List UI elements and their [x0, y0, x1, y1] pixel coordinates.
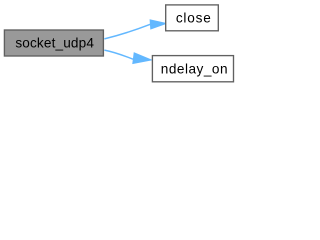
svg-text:close: close: [176, 10, 212, 25]
edge socket_udp4 to ndelay_on (wire): [104, 50, 133, 59]
node close (white box): [166, 5, 219, 31]
node socket_udp4 (current function, grey box): [4, 30, 103, 56]
arrowhead into ndelay_on: [133, 54, 149, 63]
svg-text:socket_udp4: socket_udp4: [15, 36, 94, 51]
node ndelay_on (white box): [152, 56, 233, 82]
arrowhead into close: [150, 20, 165, 28]
edge socket_udp4 to close (wire): [104, 24, 150, 39]
svg-text:ndelay_on: ndelay_on: [161, 61, 228, 76]
